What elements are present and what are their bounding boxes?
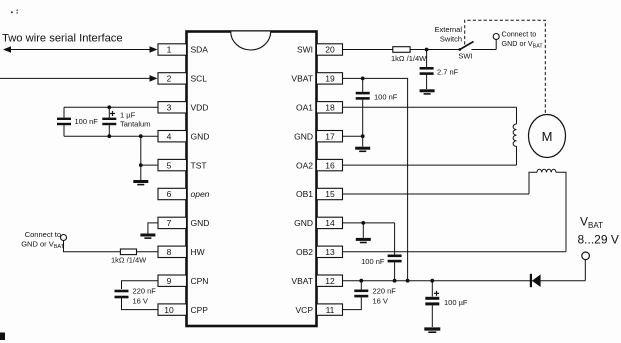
svg-text:GND: GND xyxy=(191,131,210,141)
capacitor 100nF (VDD) xyxy=(57,107,71,136)
svg-text:7: 7 xyxy=(167,218,172,228)
node junction pin14 ground stub xyxy=(361,221,365,225)
svg-text:16 V: 16 V xyxy=(133,297,148,306)
svg-text:100 nF: 100 nF xyxy=(75,117,99,126)
svg-text:Tantalum: Tantalum xyxy=(120,120,150,129)
node junction pin19/100nF xyxy=(361,77,365,81)
wire GND net pin4 xyxy=(64,135,158,137)
svg-text:CPP: CPP xyxy=(191,305,209,315)
pin 11 VCP (right) xyxy=(296,304,343,315)
svg-text:open: open xyxy=(191,189,210,199)
pin 20 SWI (right) xyxy=(297,44,343,55)
wire OA2 pin16 xyxy=(343,164,517,166)
svg-text:6: 6 xyxy=(167,189,172,199)
pin 15 OB1 (right) xyxy=(296,188,343,199)
svg-text:9: 9 xyxy=(167,276,172,286)
wire HW pin8 xyxy=(64,241,121,252)
ground (pin14) xyxy=(356,239,371,242)
wire OB1 pin15 xyxy=(343,193,530,195)
svg-text:19: 19 xyxy=(325,74,335,84)
svg-text:2.7 nF: 2.7 nF xyxy=(437,68,459,77)
motor M xyxy=(529,115,566,158)
wire CPN pin9 xyxy=(122,281,159,289)
node junction rail/100uF xyxy=(430,279,434,283)
wire VBAT rail pin12 xyxy=(343,280,586,282)
wire GND to TST vertical xyxy=(140,136,142,181)
svg-text:Switch: Switch xyxy=(440,35,462,44)
svg-text:GND: GND xyxy=(191,218,210,228)
pin 13 OB2 (right) xyxy=(296,246,343,257)
ground (100uF) xyxy=(424,329,440,332)
svg-text:OB2: OB2 xyxy=(296,247,313,257)
svg-text:18: 18 xyxy=(325,103,335,113)
svg-text:8: 8 xyxy=(167,247,172,257)
capacitor 100nF (GND14-VBAT12) xyxy=(388,223,402,281)
wire CPP pin10 xyxy=(122,298,159,310)
svg-text:3: 3 xyxy=(167,103,172,113)
capacitor 100nF (VBAT19-GND17) xyxy=(356,78,370,146)
svg-text:Two wire serial Interface: Two wire serial Interface xyxy=(2,33,123,45)
svg-text:4: 4 xyxy=(167,131,172,141)
node junction rail/220nF xyxy=(359,279,363,283)
wire switch to terminal xyxy=(495,40,497,50)
node junction VDD/tantalum xyxy=(107,105,111,109)
svg-text:SCL: SCL xyxy=(191,74,208,84)
wire SCL arrow xyxy=(0,77,156,79)
wire TST pin5 xyxy=(141,164,158,166)
pin 6 open (left) xyxy=(158,188,210,199)
node junction SWI/2.7nF xyxy=(425,48,429,52)
svg-text:GND: GND xyxy=(294,131,313,141)
terminal circle (HW) xyxy=(61,235,67,241)
ground (pin7) xyxy=(140,235,155,238)
svg-text:OB1: OB1 xyxy=(296,189,313,199)
scan artifact top-left xyxy=(11,10,18,14)
pin 1 SDA (left) xyxy=(158,44,208,55)
resistor 1k (SWI) xyxy=(393,47,410,53)
capacitor 100uF electrolytic xyxy=(425,281,439,327)
svg-text:VBAT: VBAT xyxy=(291,74,313,84)
wire VDD net pin3 xyxy=(64,106,158,108)
node junction GND vertical xyxy=(139,134,143,138)
op IC body U1 xyxy=(187,32,317,327)
svg-text:Connect to: Connect to xyxy=(502,30,537,39)
node junction rail/pin19 xyxy=(406,279,410,283)
switch SWI xyxy=(458,42,496,51)
svg-text:16: 16 xyxy=(325,160,335,170)
capacitor 220nF 16V (charge pump left) xyxy=(115,291,129,297)
wire SWI pin20 xyxy=(343,49,393,51)
svg-text:2: 2 xyxy=(167,74,172,84)
svg-text:VCP: VCP xyxy=(296,305,314,315)
svg-text:1: 1 xyxy=(167,45,172,55)
svg-text:VBAT: VBAT xyxy=(291,276,313,286)
pin 5 TST (left) xyxy=(158,159,207,170)
resistor 1k (HW) xyxy=(120,249,136,255)
pin 17 GND (right) xyxy=(294,131,342,142)
scan artifact bottom-left xyxy=(0,333,5,341)
wire GND pin7 xyxy=(148,223,158,234)
svg-text:1 µF: 1 µF xyxy=(120,111,136,120)
wire SDA bus arrow xyxy=(7,49,156,51)
node junction GND/tantalum xyxy=(107,134,111,138)
svg-text:SDA: SDA xyxy=(191,45,209,55)
wire GND pin17 xyxy=(343,135,363,137)
svg-text:GND: GND xyxy=(294,218,313,228)
svg-text:13: 13 xyxy=(325,247,335,257)
terminal circle (VBAT) xyxy=(582,252,590,260)
svg-text:HW: HW xyxy=(191,247,205,257)
pin 8 HW (left) xyxy=(158,246,205,257)
pin 10 CPP (left) xyxy=(158,304,208,315)
wire GND pin14 xyxy=(343,222,395,224)
dashed mechanical link switch-motor xyxy=(465,20,546,114)
capacitor 220nF 16V (VBAT12-VCP11) xyxy=(354,281,368,296)
pin 9 CPN (left) xyxy=(158,275,208,286)
svg-text:SWI: SWI xyxy=(297,45,313,55)
svg-text:VDD: VDD xyxy=(191,103,209,113)
svg-text:TST: TST xyxy=(191,160,207,170)
svg-text:CPN: CPN xyxy=(191,276,209,286)
svg-text:M: M xyxy=(542,129,553,144)
wire OB2 pin13 xyxy=(343,251,567,253)
svg-text:15: 15 xyxy=(325,189,335,199)
pin 2 SCL (left) xyxy=(158,73,207,84)
svg-text:220 nF: 220 nF xyxy=(133,287,157,296)
pin 16 OA2 (right) xyxy=(296,159,343,170)
svg-text:100 µF: 100 µF xyxy=(444,298,468,307)
node junction TST xyxy=(139,163,143,167)
svg-text:12: 12 xyxy=(325,276,335,286)
svg-text:20: 20 xyxy=(325,45,335,55)
svg-text:11: 11 xyxy=(326,305,335,315)
svg-text:100 nF: 100 nF xyxy=(374,93,398,102)
svg-text:220 nF: 220 nF xyxy=(373,287,397,296)
svg-text:100 nF: 100 nF xyxy=(361,257,385,266)
pin 3 VDD (left) xyxy=(158,102,208,113)
pin 7 GND (left) xyxy=(158,217,209,228)
svg-text:5: 5 xyxy=(167,160,172,170)
ground (TST) xyxy=(133,182,148,185)
inductor winding B xyxy=(529,169,566,252)
ground (2.7nF) xyxy=(420,91,435,94)
pin 14 GND (right) xyxy=(294,217,342,228)
svg-text:OA1: OA1 xyxy=(296,103,313,113)
svg-text:10: 10 xyxy=(164,305,174,315)
inductor winding A xyxy=(513,107,516,165)
svg-text:8...29 V: 8...29 V xyxy=(578,233,619,247)
capacitor C-tantalum 1uF xyxy=(102,107,116,136)
svg-text:Connect to: Connect to xyxy=(25,230,61,239)
pin 18 OA1 (right) xyxy=(296,102,343,113)
capacitor 2.7nF xyxy=(420,50,434,90)
node junction rail/100nF xyxy=(393,279,397,283)
svg-text:16 V: 16 V xyxy=(373,297,388,306)
svg-text:1kΩ /1/4W: 1kΩ /1/4W xyxy=(111,256,147,265)
diode D1 reverse protection xyxy=(530,274,541,287)
svg-text:SWI: SWI xyxy=(458,52,472,61)
wire VBAT terminal riser xyxy=(584,260,586,281)
wire VBAT pin19 xyxy=(343,78,408,280)
svg-text:17: 17 xyxy=(325,131,335,141)
svg-text:OA2: OA2 xyxy=(296,160,313,170)
ground (pin17) xyxy=(355,148,370,151)
svg-text:1kΩ /1/4W: 1kΩ /1/4W xyxy=(391,54,427,63)
node junction pin17 xyxy=(361,134,365,138)
pin 12 VBAT (right) xyxy=(291,275,342,286)
pin 19 VBAT (right) xyxy=(291,73,342,84)
svg-text:External: External xyxy=(434,25,462,34)
wire OA1 pin18 xyxy=(343,106,517,108)
terminal circle (SWI) xyxy=(493,34,499,40)
wire VCP pin11 xyxy=(343,297,362,310)
svg-text:14: 14 xyxy=(325,218,335,228)
pin 4 GND (left) xyxy=(158,131,209,142)
